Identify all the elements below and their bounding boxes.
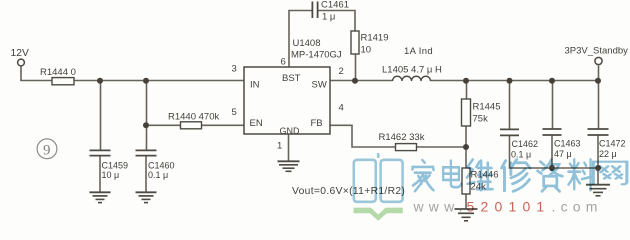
svg-text:1A Ind: 1A Ind [404,46,433,57]
resistor R1462 [379,132,425,151]
node caps bus C1463 [549,165,555,171]
svg-text:Vout=0.6V×(11+R1/R2): Vout=0.6V×(11+R1/R2) [292,186,405,197]
wire FB to R1462 [330,125,396,147]
svg-text:.com: .com [552,199,603,215]
watermark book ribbon [354,208,403,221]
svg-text:520101: 520101 [467,199,551,215]
svg-text:6: 6 [281,57,286,68]
wire C1459 to ground [99,156,101,192]
node output / C1463 [549,78,555,84]
svg-text:22 μ: 22 μ [599,149,617,159]
terminal 12V [18,59,25,66]
svg-text:EN: EN [250,118,263,129]
svg-text:2: 2 [339,66,344,77]
svg-text:4: 4 [339,103,344,114]
capacitor C1460 [136,150,175,180]
svg-text:10: 10 [361,45,372,56]
node SW / R1419 [352,78,358,84]
resistor R1444 [40,67,76,85]
node output / C1472 terminal [595,78,601,84]
wire R1445 bottom to FB node [465,126,467,147]
svg-text:BST: BST [282,73,301,84]
capacitor C1463 [543,129,581,159]
ground (R1446) [455,209,478,221]
resistor R1445 [462,99,501,126]
capacitor C1461 [312,0,349,23]
watermark hanzi 维 [467,160,492,191]
svg-text:5: 5 [232,107,237,118]
wire R1462 to FB node [417,146,467,148]
watermark hanzi 修 [502,160,530,192]
capacitor C1462 [500,129,538,159]
svg-text:U1408: U1408 [293,38,321,49]
wire IC GND pin1 [288,134,290,161]
svg-text:R1440 470k: R1440 470k [168,112,219,123]
watermark hanzi 家 [412,160,433,191]
terminal 3P3V_Standby [595,57,602,64]
svg-text:R1462 33k: R1462 33k [379,132,425,143]
capacitor C1459 [90,150,129,180]
wire EN branch R1440 [146,124,244,126]
svg-text:R1444 0: R1444 0 [40,67,76,78]
watermark book logo pages [354,153,403,202]
svg-text:47 μ: 47 μ [554,149,572,159]
svg-text:SW: SW [312,80,327,91]
svg-text:3: 3 [232,64,237,75]
circled number 9 [37,139,57,159]
wire R1446 top [465,147,467,168]
node output / R1445 [463,78,469,84]
svg-text:C1472: C1472 [599,139,626,149]
wire BST to C1461 [289,11,312,68]
wire C1460 to ground [145,156,147,192]
resistor R1446 [462,168,499,194]
inductor L1405 [382,46,442,81]
svg-text:3P3V_Standby: 3P3V_Standby [565,46,629,57]
svg-text:GND: GND [280,126,301,136]
wire 12V feed to R1444 [21,67,52,81]
resistor R1419 [351,31,389,56]
watermark [354,153,627,221]
svg-text:C1460: C1460 [148,161,175,171]
svg-text:75k: 75k [473,114,489,125]
ground (IC pin1) [278,161,300,171]
wire C1460 branch down [146,80,148,150]
op-amp U1408 IC body [244,67,330,134]
node output / C1462 [507,78,513,84]
wire SW to inductor [330,80,393,82]
wire caps bus to ground [597,168,599,184]
watermark hanzi 资 [538,160,563,192]
node IN rail / C1460 [143,78,149,84]
wire R1445 top [466,80,468,99]
wire inductor to output rail [431,80,599,82]
svg-text:1: 1 [277,141,282,152]
svg-text:9: 9 [43,143,51,159]
svg-text:10 μ: 10 μ [102,170,120,180]
node caps bus C1472 [595,165,601,171]
svg-text:12V: 12V [11,48,29,59]
svg-text:C1461: C1461 [321,0,349,11]
wire C1463 branch [552,80,554,129]
node IN rail / C1459 [97,78,103,84]
wire C1472 branch [598,80,600,129]
node EN / R1440 [143,122,149,128]
watermark url www.520101.com [413,199,603,215]
svg-text:0.1 μ: 0.1 μ [511,150,531,160]
svg-text:0.1 μ: 0.1 μ [148,170,168,180]
wire R1446 bottom to ground [465,194,467,209]
ground (C1459) [90,192,111,202]
wire C1462 branch [509,80,511,129]
svg-text:1 μ: 1 μ [322,12,335,23]
svg-text:R1445: R1445 [473,102,501,113]
svg-text:C1459: C1459 [102,161,129,171]
watermark hanzi 网 [593,162,627,185]
ground (output caps) [586,185,610,196]
wire R1444 to IC pin3 IN [74,80,244,82]
wire C1459 branch down [100,80,102,150]
wire R1419 bottom to SW node [355,54,357,81]
watermark hanzi 料 [568,160,592,191]
svg-text:C1462: C1462 [512,139,539,149]
svg-text:R1419: R1419 [361,33,389,44]
watermark hanzi 电 [443,161,461,188]
ground (C1460) [136,192,157,202]
node FB divider [463,144,469,150]
svg-text:C1463: C1463 [554,139,581,149]
svg-text:L1405 4.7 μ H: L1405 4.7 μ H [382,65,442,76]
wire C1461 to R1419 top [318,11,355,32]
capacitor C1472 [588,129,626,159]
svg-text:MP-1470GJ: MP-1470GJ [291,50,342,61]
wire caps bottom bus [510,136,599,169]
resistor R1440 [168,112,219,129]
svg-text:FB: FB [311,118,323,129]
wire 3P3V terminal stub [598,66,600,82]
svg-text:IN: IN [250,80,260,91]
svg-text:www.: www. [413,199,468,215]
